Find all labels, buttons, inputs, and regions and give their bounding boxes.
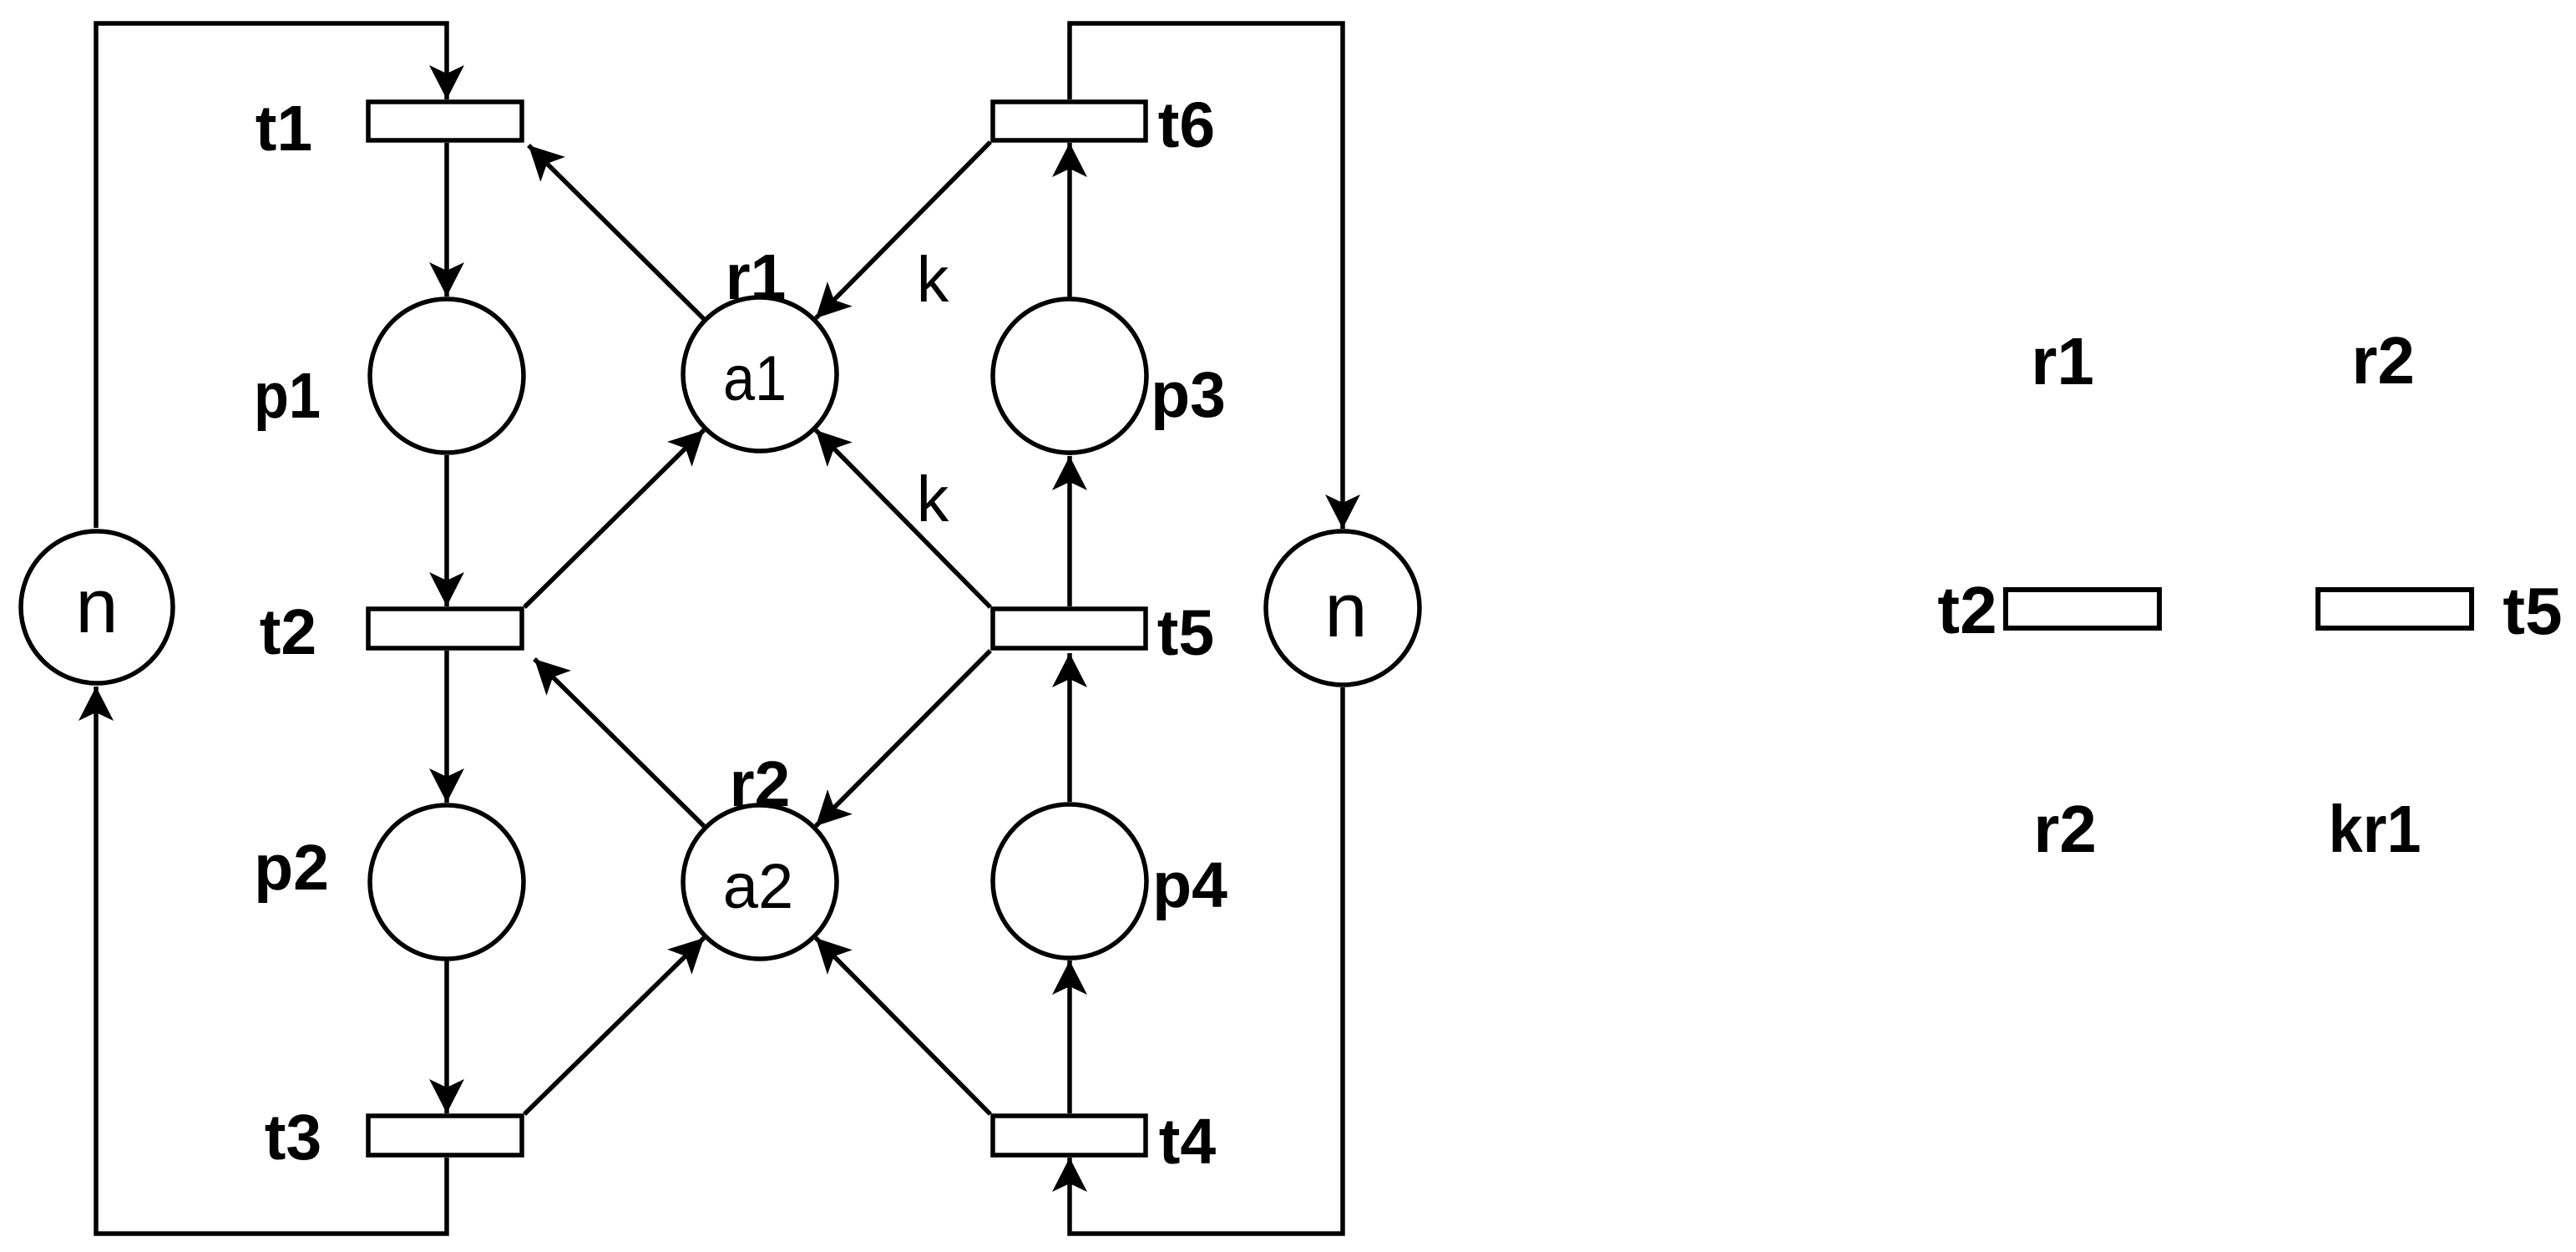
place n right [1266,531,1420,685]
place a2 [683,805,837,959]
svg-text:r1: r1 [2031,324,2094,398]
transition t1 [368,102,522,140]
transition t6 [993,102,1146,140]
transition t2 [368,609,522,648]
wire p4 to t5 [1067,653,1072,802]
wire a1 to t1 [529,145,704,319]
svg-text:r2: r2 [730,748,791,820]
place n left [21,531,173,683]
svg-text:p2: p2 [254,832,329,904]
wire p2 to t3 [444,961,449,1113]
wire t6 to n(right) via top loop [1070,23,1343,529]
svg-text:n: n [1324,568,1367,653]
svg-text:p4: p4 [1152,849,1227,921]
wire n(left) to t1 via top loop [96,23,447,528]
svg-text:t3: t3 [265,1102,321,1173]
svg-text:r1: r1 [726,241,787,313]
wire t6 to a1 [816,142,990,318]
svg-text:p1: p1 [254,360,321,432]
wire t5 to a1 [816,430,990,607]
svg-text:a1: a1 [723,343,787,414]
legend transition t2 [2006,590,2159,628]
svg-text:k: k [917,244,949,316]
legend transition t5 [2318,590,2472,628]
wire n(right) to t4 via bottom loop [1070,687,1343,1234]
place p1 [370,299,524,453]
wire t3 to a2 [524,938,704,1114]
svg-text:a2: a2 [723,851,794,922]
wire t5 to a2 [816,651,990,826]
svg-text:t5: t5 [1157,597,1214,669]
wire t2 to a1 [524,430,704,607]
svg-text:kr1: kr1 [2329,792,2422,866]
place p3 [993,299,1146,453]
svg-text:r2: r2 [2033,792,2097,866]
svg-text:t5: t5 [2503,574,2562,648]
wire a2 to t2 [534,659,704,826]
svg-text:t4: t4 [1159,1106,1217,1178]
wire p1 to t2 [444,455,449,606]
transition t4 [993,1116,1146,1155]
svg-text:t2: t2 [1937,573,1997,647]
wire t4 to a2 [816,938,990,1114]
svg-text:n: n [75,564,118,649]
svg-text:p3: p3 [1151,359,1226,431]
wire t3 to n(left) via bottom loop [96,687,447,1234]
wire t5 to p3 [1067,456,1072,606]
svg-text:t1: t1 [256,93,312,165]
wire p3 to t6 [1067,143,1072,455]
place p2 [370,805,524,959]
svg-text:t6: t6 [1158,89,1215,161]
place a1 [683,297,837,451]
svg-text:r2: r2 [2351,323,2415,398]
place p4 [993,804,1146,958]
transition t3 [368,1116,522,1155]
wire t4 to p4 [1067,961,1072,1113]
wire t2 to p2 [444,651,449,803]
svg-text:t2: t2 [260,596,316,668]
wire t1 to p1 [444,143,449,297]
svg-text:k: k [917,464,949,535]
transition t5 [993,609,1146,648]
